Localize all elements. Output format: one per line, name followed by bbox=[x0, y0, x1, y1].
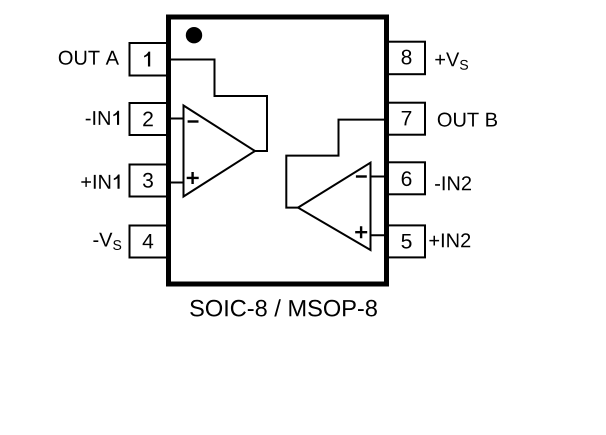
pin 6 box bbox=[388, 162, 425, 194]
pin 5 number label bbox=[402, 234, 412, 249]
pin name +VS bbox=[435, 53, 468, 70]
wire pin5 to op-amp B non-inverting input bbox=[371, 234, 389, 236]
pin 8 box bbox=[388, 42, 425, 74]
wire pin3 to op-amp A non-inverting input bbox=[167, 182, 184, 184]
pin 5 box bbox=[388, 225, 425, 257]
pin 1 number label bbox=[144, 52, 150, 67]
op-amp A non-inverting input plus sign bbox=[187, 172, 199, 184]
op-amp A inverting input minus sign bbox=[188, 120, 199, 122]
op-amp B triangle (mirrored, points left) bbox=[298, 163, 371, 250]
op-amp B non-inverting input plus sign bbox=[355, 226, 367, 238]
pin 4 number label bbox=[143, 234, 154, 248]
IC package body U1 (SOIC-8 / MSOP-8 outline) bbox=[169, 17, 387, 284]
pin 2 box bbox=[130, 103, 168, 135]
wire pin1 to op-amp A output (stepped) bbox=[167, 60, 267, 152]
wire pin2 to op-amp A inverting input bbox=[167, 118, 184, 120]
pin name -VS bbox=[93, 233, 121, 250]
pin 1 box bbox=[130, 43, 168, 76]
pin 6 number label bbox=[402, 171, 412, 186]
pin name -IN2 bbox=[435, 176, 471, 190]
package caption SOIC-8 / MSOP-8 bbox=[190, 299, 377, 316]
pin 1 marker dot bbox=[186, 27, 202, 43]
pin 8 number label bbox=[402, 50, 412, 65]
pin name OUT A bbox=[59, 51, 119, 65]
pin name OUT B bbox=[438, 113, 497, 127]
op-amp A triangle bbox=[184, 106, 256, 197]
pin 3 number label bbox=[143, 173, 153, 188]
pin name +IN2 bbox=[429, 233, 470, 247]
pin 4 box bbox=[130, 226, 168, 258]
op-amp B inverting input minus sign bbox=[356, 175, 367, 177]
pin 7 number label bbox=[402, 111, 412, 125]
pin 3 box bbox=[130, 165, 168, 197]
pin 7 box bbox=[388, 103, 425, 135]
wire pin6 to op-amp B inverting input bbox=[371, 176, 389, 178]
pin name -IN1 bbox=[86, 111, 119, 125]
pin 2 number label bbox=[143, 112, 153, 127]
pin name +IN1 bbox=[81, 175, 119, 189]
wire pin7 to op-amp B output (stepped) bbox=[286, 120, 388, 208]
